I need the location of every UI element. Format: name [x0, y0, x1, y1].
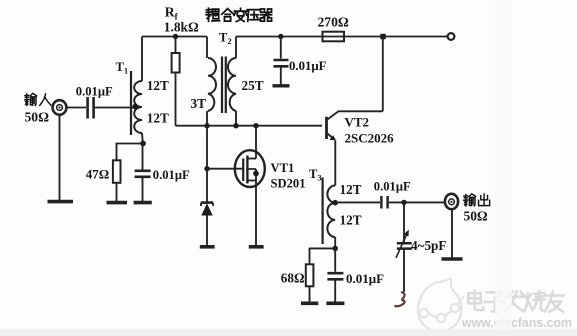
wire VT1 drain lead — [255, 126, 257, 159]
wire 25T top lead — [235, 37, 237, 59]
wire top bus right segment — [236, 36, 448, 38]
transistor VT1 drain stub — [247, 158, 256, 160]
svg-text:270Ω: 270Ω — [318, 15, 349, 30]
node T1 bottom — [140, 141, 146, 147]
wire bypass cap ground lead — [334, 279, 336, 302]
wire T3 bypass cap lead — [334, 248, 336, 271]
watermark elecfans CJK text — [468, 291, 563, 312]
svg-text:47Ω: 47Ω — [86, 167, 109, 182]
wire input jack ground lead — [59, 114, 61, 200]
transformer T2 primary 3T winding — [208, 58, 216, 111]
transformer T2 core — [222, 57, 226, 114]
capacitor C1 input 0.01uF plates — [88, 97, 94, 119]
svg-text:2SC2026: 2SC2026 — [345, 131, 395, 146]
svg-text:VT2: VT2 — [345, 115, 370, 130]
node VT1 drain junction — [253, 123, 258, 128]
svg-text:12T: 12T — [340, 182, 362, 197]
transistor VT2 base bar — [325, 117, 328, 139]
ground 68ohm — [301, 301, 318, 305]
wire T1 bottom stub — [141, 133, 144, 144]
wire C1 to T1 tap — [95, 107, 136, 109]
ground decoupling cap — [273, 84, 290, 87]
svg-text:www.elecfans.com: www.elecfans.com — [461, 316, 572, 330]
capacitor trimmer 4-5pF plates — [397, 243, 412, 248]
diode D1 gate protection — [206, 169, 208, 202]
capacitor trimmer arrow — [396, 233, 408, 258]
scan shading right band — [495, 0, 512, 336]
wire trimmer upper lead — [403, 202, 405, 242]
svg-text:50Ω: 50Ω — [464, 209, 488, 224]
resistor R 68ohm — [306, 264, 314, 286]
svg-text:0.01μF: 0.01μF — [374, 180, 411, 194]
capacitor C-decouple 0.01uF plates — [274, 60, 289, 66]
node 25T-gate bus — [233, 123, 238, 128]
wire VT1 gate lead — [207, 168, 242, 170]
resistor R 47ohm — [113, 160, 121, 183]
svg-text:T1: T1 — [116, 60, 129, 76]
terminal Vcc open circle — [448, 33, 455, 40]
wire 3T top lead — [206, 37, 208, 59]
wire VT1 source lead down — [255, 181, 257, 246]
label output CJK — [464, 194, 490, 206]
svg-text:12T: 12T — [147, 111, 169, 126]
wire bias cap lead — [142, 144, 144, 171]
wire 68ohm ground lead — [309, 286, 311, 302]
svg-text:T2: T2 — [219, 31, 232, 47]
ground diode — [200, 245, 215, 249]
transistor VT2 emitter with arrow — [327, 134, 335, 140]
transistor VT1 substrate stub with dot — [247, 169, 256, 181]
ground output jack — [442, 257, 463, 261]
wire decoupling cap lower lead — [280, 68, 282, 85]
wire T1 top lead — [141, 37, 143, 82]
wire top bus left segment — [142, 36, 207, 38]
svg-text:25T: 25T — [242, 78, 264, 93]
svg-text:SD201: SD201 — [271, 177, 306, 191]
node T3 output tap — [332, 200, 338, 206]
ground trimmer remnant — [395, 292, 405, 306]
wire bias cap ground lead — [142, 177, 144, 201]
node trimmer tap — [401, 200, 406, 205]
transformer T1 winding upper 12T — [134, 81, 142, 107]
wire T3 bottom to 68ohm — [310, 248, 336, 264]
wire diode ground lead — [206, 216, 208, 246]
wire gate bus node — [176, 125, 323, 127]
svg-text:0.01μF: 0.01μF — [289, 59, 327, 73]
transformer T3 winding upper 12T — [327, 186, 335, 203]
capacitor C-out 0.01uF plates — [381, 196, 387, 209]
wire top bus to terminal — [444, 36, 448, 38]
wire output tap horizontal — [335, 201, 380, 203]
svg-text:50Ω: 50Ω — [25, 110, 50, 125]
scan shading bottom — [0, 329, 577, 336]
terminal input jack — [53, 100, 67, 115]
wire VT2 collector vertical — [382, 39, 384, 111]
wire VT2 emitter lead down — [334, 140, 336, 185]
node collector feed — [380, 34, 385, 39]
wire cap to output terminal — [389, 201, 445, 203]
wire T3 winding bottom stub — [334, 237, 336, 248]
terminal output jack — [445, 194, 458, 209]
wire Rf lower lead — [175, 73, 177, 126]
node Rf-top — [173, 34, 178, 39]
wire output jack ground lead — [451, 209, 453, 258]
svg-text:3T: 3T — [191, 96, 207, 111]
wire 3T bottom lead to gate node — [206, 111, 208, 169]
watermark elecfans logo flame — [418, 279, 464, 332]
svg-text:0.01μF: 0.01μF — [153, 168, 190, 182]
label input CJK — [25, 93, 51, 105]
ground 47ohm — [107, 201, 128, 205]
wire 47ohm ground lead — [116, 183, 118, 201]
node VT1 gate junction — [204, 166, 209, 171]
capacitor C-bias 0.01uF plates — [135, 171, 151, 177]
wire trimmer lower lead — [403, 249, 405, 292]
ground input — [48, 200, 74, 204]
svg-text:1.8kΩ: 1.8kΩ — [164, 20, 199, 35]
label title coupling transformer (CJK paths) — [206, 8, 271, 21]
capacitor C-bypass T3 0.01uF plates — [327, 273, 343, 279]
transistor VT1 gate bar — [242, 159, 244, 182]
node decoupling cap top — [278, 34, 283, 39]
svg-text:4~5pF: 4~5pF — [411, 238, 446, 253]
wire input jack to C1 — [66, 107, 86, 109]
ground VT1 source — [249, 245, 264, 249]
node 3T-gate bus junction — [204, 123, 209, 128]
wire VT2 collector horizontal — [327, 111, 383, 119]
transistor VT1 channel bar — [246, 156, 248, 184]
transistor VT1 source stub — [247, 180, 256, 182]
transformer T1 core — [130, 71, 132, 135]
svg-text:0.01μF: 0.01μF — [346, 271, 384, 286]
node T3 bottom — [332, 246, 338, 252]
svg-text:VT1: VT1 — [271, 161, 295, 175]
node T1 center tap — [132, 104, 138, 110]
transformer T2 secondary 25T winding — [228, 58, 236, 111]
ground bypass cap — [326, 301, 344, 305]
ground bias cap — [134, 201, 152, 205]
svg-text:0.01μF: 0.01μF — [76, 85, 113, 99]
wire 25T bottom lead — [235, 111, 237, 126]
transformer T1 winding lower 12T — [134, 107, 142, 133]
transformer T3 winding lower 12T — [327, 203, 335, 237]
wire decoupling cap upper lead — [280, 37, 282, 59]
transistor VT1 MOSFET body circle — [235, 150, 265, 187]
resistor R 270ohm — [323, 32, 345, 42]
wire T1 bottom to bias network — [117, 144, 144, 161]
wire Rf upper lead — [175, 37, 177, 54]
resistor Rf 1.8k — [172, 53, 180, 73]
transformer T3 core — [322, 178, 324, 245]
svg-text:12T: 12T — [147, 78, 169, 93]
svg-text:68Ω: 68Ω — [281, 271, 305, 286]
svg-text:12T: 12T — [340, 213, 362, 228]
svg-text:T3: T3 — [309, 167, 322, 183]
